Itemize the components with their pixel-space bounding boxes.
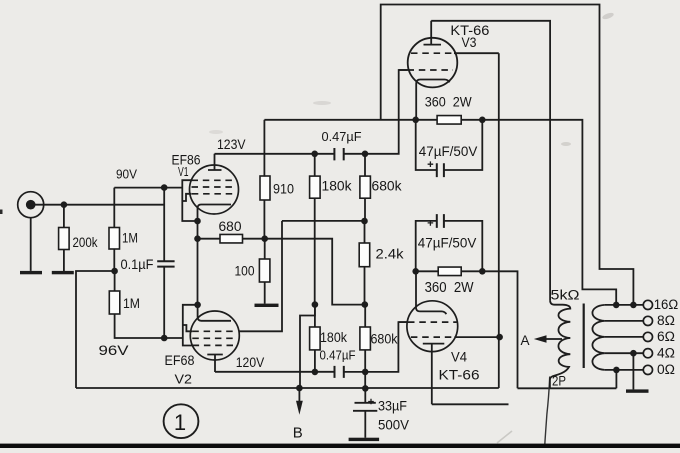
tube V3 cathode	[416, 80, 449, 120]
node 4ohm	[630, 350, 637, 357]
wire V4 g1	[398, 321, 407, 323]
svg-text:1M: 1M	[122, 230, 138, 246]
resistor 180k lower	[310, 327, 321, 350]
svg-text:V1: V1	[178, 164, 189, 179]
resistor 360 upper leads	[416, 119, 483, 121]
tube V1 grid bracket g3	[182, 180, 197, 221]
node 680k bottom	[361, 218, 368, 225]
wire V1 grid to 0.1uF	[163, 188, 165, 262]
wire 96V node	[164, 337, 183, 339]
node 680 left	[194, 235, 201, 242]
wire jog to B rail	[300, 305, 315, 388]
tube V2 plate	[207, 355, 223, 373]
terminal 4ohm	[643, 349, 652, 358]
terminal 6ohm	[643, 332, 652, 341]
node B arrow	[296, 385, 303, 392]
capacitor 0.1uF	[157, 261, 174, 266]
wire grid return left	[76, 271, 115, 388]
node 16ohm a	[613, 302, 620, 309]
ground 33uF	[349, 438, 380, 441]
node 90V junction	[161, 184, 168, 191]
tube V1 EF86 envelope	[190, 165, 239, 214]
resistor 910 lead bottom	[263, 200, 265, 239]
squiggle mark	[545, 377, 550, 449]
wire V3 g2	[454, 52, 499, 54]
wire B rail	[76, 387, 499, 389]
resistor 680k lower leads	[364, 305, 366, 372]
tube V1 plate	[208, 154, 222, 170]
arrow A center tap	[534, 335, 547, 343]
tube V2 g1 step	[183, 325, 193, 331]
svg-text:1M: 1M	[123, 295, 140, 311]
tube V2 grid bracket g3	[183, 305, 198, 346]
capacitor 47uF upper loop	[416, 120, 483, 170]
wire tap 4ohm	[605, 352, 644, 354]
svg-text:680k: 680k	[372, 179, 402, 194]
resistor 100 leads	[264, 239, 266, 304]
resistor 680k upper	[360, 176, 371, 198]
wire 120V plate node	[215, 371, 335, 373]
resistor 100	[259, 259, 270, 282]
resistor 180k upper	[310, 176, 321, 198]
tube V3 KT-66 envelope	[408, 38, 458, 88]
svg-text:V2: V2	[175, 372, 193, 387]
svg-text:120V: 120V	[236, 355, 264, 370]
wire tap 16ohm	[605, 304, 644, 306]
node 1M junction	[111, 268, 118, 275]
wire V3 plate to primary	[431, 21, 550, 301]
wire tap 6ohm	[605, 336, 644, 338]
smudge c	[497, 431, 512, 443]
resistor 180k lower leads	[314, 305, 316, 372]
wire 2.4k node to V2 grid	[239, 221, 282, 331]
svg-text:200k: 200k	[73, 234, 99, 250]
svg-text:90V: 90V	[116, 167, 137, 182]
wire 0ohm to rail B	[615, 370, 617, 388]
capacitor 33uF 500V	[353, 388, 377, 437]
node 120V/180k	[312, 369, 319, 376]
svg-text:100: 100	[235, 264, 255, 279]
tube V3 plate	[424, 21, 442, 45]
transformer secondary winding	[592, 305, 604, 370]
resistor 1M lower	[109, 291, 120, 314]
svg-text:V3: V3	[462, 35, 477, 50]
tube V2 grids dashed	[192, 331, 237, 345]
capacitor 47uF lower plates	[437, 214, 444, 228]
ground secondary	[626, 389, 649, 392]
wire 120V node to B rail	[364, 372, 366, 389]
plus 47uF upper	[428, 161, 434, 167]
ground jack	[20, 271, 42, 274]
transformer primary winding	[550, 300, 570, 388]
wire 360l to rail B	[482, 271, 517, 388]
tube V4 cathode	[416, 271, 446, 314]
node 680 right	[261, 235, 268, 242]
resistor 360 lower leads	[416, 270, 483, 272]
wire screens to 680k bottom	[282, 220, 365, 222]
svg-text:180k: 180k	[322, 179, 352, 194]
tube V1 g1 step	[182, 194, 191, 201]
node V2 cathode	[194, 302, 201, 309]
svg-text:1: 1	[174, 410, 186, 435]
resistor 360 upper	[437, 116, 461, 125]
node 180k mid	[312, 301, 319, 308]
terminal 0ohm	[643, 365, 652, 374]
resistor 680	[220, 234, 243, 243]
tube V4 plate	[423, 344, 445, 405]
wire cap to V3 grid	[344, 70, 408, 154]
svg-text:360 2W: 360 2W	[425, 280, 474, 296]
svg-text:0.47µF: 0.47µF	[322, 129, 362, 144]
node 360l left	[412, 268, 419, 275]
capacitor 47uF lower loop	[416, 221, 483, 271]
svg-text:500V: 500V	[378, 418, 409, 433]
wire 123V plate node	[215, 153, 335, 155]
capacitor 47uF upper plates	[437, 163, 444, 177]
ground 200k	[52, 271, 74, 274]
resistor 910	[260, 176, 270, 200]
plus 33uF	[368, 399, 374, 405]
svg-text:123V: 123V	[217, 136, 246, 152]
smudge d	[313, 101, 331, 105]
svg-text:2.4k: 2.4k	[376, 247, 404, 262]
transformer core	[583, 304, 585, 369]
svg-text:16Ω: 16Ω	[654, 297, 679, 312]
capacitor 0.47uF lower	[335, 366, 344, 378]
bottom border	[0, 444, 680, 448]
tube V4 KT-66 envelope	[407, 301, 458, 352]
wire feedback 16ohm to 910/360	[264, 119, 415, 121]
edge tick	[0, 210, 3, 215]
svg-text:910: 910	[273, 182, 294, 197]
plus 47uF lower	[428, 220, 434, 226]
terminal 8ohm	[643, 316, 652, 325]
node 360l right	[479, 268, 486, 275]
tube V1 cathode	[198, 205, 232, 222]
svg-text:360 2W: 360 2W	[425, 94, 473, 110]
arrow B	[298, 388, 300, 402]
node 680k top	[362, 151, 369, 158]
wire 90V node	[114, 187, 182, 189]
node 33uF	[362, 385, 369, 392]
figure number circle 1	[164, 404, 199, 438]
wire cap to V4 grid	[344, 322, 408, 372]
node 2.4k bottom	[362, 301, 369, 308]
wire 4ohm to ground	[632, 353, 634, 389]
tube V2 cathode	[198, 305, 231, 321]
wire V4 plate under rail	[432, 403, 509, 405]
node 360u left	[412, 117, 419, 124]
resistor 360 lower	[438, 267, 461, 276]
svg-text:5kΩ: 5kΩ	[551, 288, 580, 303]
svg-text:4Ω: 4Ω	[657, 346, 675, 361]
node 360u right	[479, 117, 486, 124]
resistor 200k leads	[63, 205, 65, 271]
resistor 200k	[59, 228, 70, 250]
node 180k top	[311, 151, 318, 158]
capacitor 0.47uF upper	[334, 148, 343, 160]
wire 0.1uF to 96V node	[163, 267, 165, 338]
svg-text:0.1µF: 0.1µF	[121, 257, 154, 272]
svg-text:33µF: 33µF	[378, 399, 407, 414]
svg-text:680k: 680k	[371, 332, 398, 347]
svg-text:EF68: EF68	[165, 353, 195, 368]
node V4 screen junction	[496, 334, 503, 341]
svg-text:6Ω: 6Ω	[657, 329, 675, 344]
node input/200k	[61, 201, 68, 208]
resistor 680k lower	[360, 327, 371, 350]
svg-text:47µF/50V: 47µF/50V	[419, 143, 478, 159]
wire V4 g2	[454, 336, 498, 338]
wire V3 g1	[399, 69, 408, 71]
svg-text:680: 680	[219, 219, 242, 234]
resistor 180k upper leads	[314, 154, 316, 305]
tube V4 grids dashed	[408, 322, 457, 337]
smudge a	[602, 12, 615, 21]
svg-text:0Ω: 0Ω	[657, 362, 675, 377]
smudge e	[209, 130, 223, 134]
svg-text:96V: 96V	[99, 342, 130, 358]
wire 680 node to 2.4k bottom	[265, 239, 365, 305]
resistor 1M upper	[109, 228, 120, 250]
resistor 2.4k	[359, 243, 370, 267]
node 96V junction	[161, 335, 168, 342]
tube V3 grids dashed	[408, 53, 455, 70]
resistor 680k upper leads	[364, 154, 366, 221]
svg-text:KT-66: KT-66	[439, 367, 480, 383]
wire cathode chain	[197, 221, 199, 305]
wire tap 0ohm	[605, 369, 644, 371]
wire 360u to 16ohm	[482, 120, 616, 305]
terminal 16ohm	[643, 300, 652, 309]
node V1 cathode	[194, 218, 201, 225]
svg-text:B: B	[293, 424, 303, 441]
wire outer feedback loop	[381, 5, 634, 305]
wire tap 8ohm	[605, 320, 644, 322]
wire input signal	[31, 204, 165, 206]
smudge b	[561, 142, 571, 146]
ground 100	[255, 304, 279, 307]
svg-text:V4: V4	[451, 350, 467, 365]
tube V1 grids dashed	[192, 180, 237, 194]
node 120V/680k	[362, 369, 369, 376]
node 0ohm	[613, 367, 620, 374]
wire rail B	[518, 387, 617, 389]
wire screens vertical	[498, 53, 500, 388]
resistor 680 leads	[198, 238, 265, 240]
svg-text:47µF/50V: 47µF/50V	[418, 235, 477, 251]
tube V2 EF68 envelope	[190, 311, 239, 360]
svg-text:0.47µF: 0.47µF	[320, 348, 356, 363]
svg-text:8Ω: 8Ω	[657, 313, 675, 328]
resistor 910 lead top	[263, 120, 265, 177]
resistor 1M upper leads	[113, 188, 115, 271]
svg-text:A: A	[521, 333, 530, 348]
wire jack ground stem	[30, 218, 32, 271]
input jack J1	[18, 192, 44, 218]
resistor 2.4k leads	[364, 221, 366, 305]
svg-text:180k: 180k	[320, 330, 347, 345]
node 16ohm b	[630, 302, 637, 309]
resistor 1M lower leads	[115, 271, 165, 338]
